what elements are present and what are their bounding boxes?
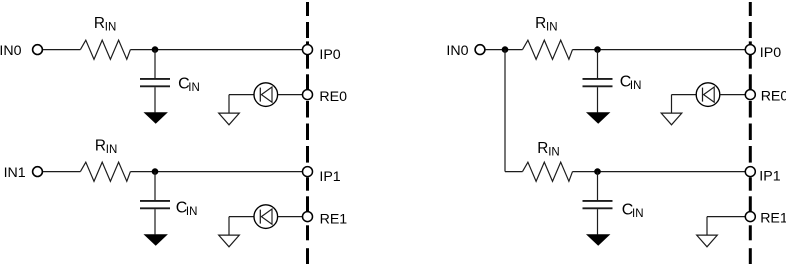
svg-text:IP1: IP1 [759, 169, 780, 185]
svg-text:IN: IN [106, 144, 118, 156]
svg-text:R: R [94, 15, 105, 32]
svg-text:IP1: IP1 [319, 169, 340, 185]
svg-text:IP0: IP0 [319, 47, 340, 63]
svg-text:IN1: IN1 [4, 165, 26, 181]
svg-text:IN0: IN0 [0, 43, 22, 59]
svg-text:IN: IN [188, 82, 200, 94]
svg-text:IN: IN [630, 80, 642, 92]
svg-text:IN: IN [105, 22, 117, 34]
svg-text:R: R [535, 15, 546, 32]
svg-text:RE0: RE0 [761, 89, 786, 105]
svg-text:R: R [537, 140, 548, 157]
svg-text:IP0: IP0 [760, 45, 781, 61]
svg-text:RE1: RE1 [320, 211, 348, 227]
svg-text:IN: IN [186, 206, 198, 218]
svg-text:RE1: RE1 [760, 210, 786, 226]
svg-text:IN: IN [546, 22, 558, 34]
svg-text:R: R [95, 138, 106, 155]
svg-text:IN: IN [632, 208, 644, 220]
svg-text:RE0: RE0 [319, 89, 347, 105]
svg-text:IN0: IN0 [446, 43, 468, 59]
svg-text:IN: IN [548, 147, 560, 159]
